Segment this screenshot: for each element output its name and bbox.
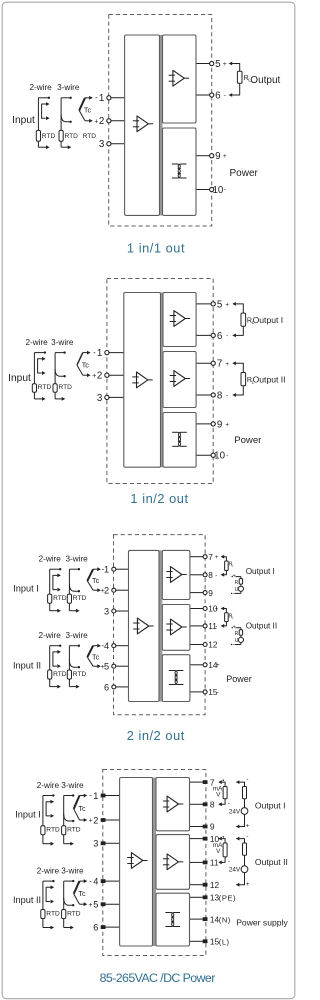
- svg-text:Tc: Tc: [84, 106, 92, 115]
- svg-text:2-wire: 2-wire: [29, 83, 52, 92]
- svg-text:Tc: Tc: [78, 889, 86, 898]
- svg-text:1 in/2 out: 1 in/2 out: [130, 491, 188, 506]
- svg-text:7: 7: [208, 552, 213, 562]
- svg-text:RTD: RTD: [42, 133, 56, 140]
- svg-text:Tc: Tc: [92, 576, 100, 585]
- svg-text:RTD: RTD: [65, 133, 79, 140]
- svg-text:-: -: [93, 348, 96, 357]
- svg-text:+: +: [233, 574, 236, 580]
- svg-text:RTD: RTD: [83, 133, 97, 140]
- svg-text:-: -: [215, 572, 217, 579]
- svg-text:85-265VAC /DC Power: 85-265VAC /DC Power: [100, 971, 216, 985]
- svg-text:6: 6: [215, 90, 221, 101]
- svg-text:RTD: RTD: [67, 827, 81, 834]
- svg-text:2-wire: 2-wire: [37, 781, 60, 790]
- svg-text:(N): (N): [219, 915, 231, 924]
- svg-text:Input I: Input I: [15, 810, 41, 820]
- svg-text:2-wire: 2-wire: [25, 338, 48, 347]
- svg-text:Input II: Input II: [13, 895, 41, 905]
- svg-text:+: +: [223, 153, 227, 160]
- svg-text:R: R: [235, 631, 239, 637]
- svg-text:-: -: [215, 623, 217, 630]
- svg-text:6: 6: [104, 682, 109, 692]
- svg-text:+: +: [233, 625, 236, 631]
- svg-text:1: 1: [99, 93, 104, 104]
- svg-text:8: 8: [210, 800, 215, 810]
- svg-text:-: -: [228, 858, 230, 865]
- svg-text:Tc: Tc: [78, 804, 86, 813]
- svg-text:V: V: [216, 848, 221, 855]
- svg-text:3-wire: 3-wire: [65, 631, 88, 640]
- svg-text:RTD: RTD: [73, 671, 87, 678]
- svg-text:2: 2: [93, 815, 98, 825]
- svg-text:Tc: Tc: [82, 360, 90, 369]
- svg-text:+: +: [215, 554, 219, 561]
- svg-text:2-wire: 2-wire: [37, 867, 60, 876]
- svg-text:Output I: Output I: [255, 800, 286, 810]
- svg-text:+: +: [216, 662, 220, 669]
- svg-text:Input II: Input II: [13, 661, 41, 671]
- svg-text:8: 8: [217, 390, 223, 401]
- svg-text:RTD: RTD: [53, 595, 67, 602]
- svg-text:9: 9: [217, 419, 222, 430]
- svg-text:RTD: RTD: [53, 671, 67, 678]
- svg-text:Power: Power: [230, 168, 259, 179]
- svg-text:V: V: [216, 792, 221, 799]
- svg-text:4: 4: [93, 877, 98, 887]
- svg-text:3: 3: [97, 393, 103, 404]
- svg-text:Input: Input: [12, 115, 35, 126]
- svg-text:Input: Input: [8, 373, 31, 384]
- svg-text:24V: 24V: [229, 867, 241, 874]
- svg-text:5: 5: [217, 299, 223, 310]
- svg-text:(PE): (PE): [219, 894, 236, 903]
- svg-text:3-wire: 3-wire: [65, 555, 88, 564]
- svg-text:1: 1: [97, 348, 102, 359]
- svg-text:9: 9: [210, 822, 215, 832]
- svg-text:RTD: RTD: [67, 910, 81, 917]
- svg-text:U: U: [235, 587, 239, 593]
- svg-text:11: 11: [210, 858, 219, 868]
- svg-text:3: 3: [99, 139, 105, 150]
- svg-text:4: 4: [104, 641, 109, 651]
- svg-text:Output: Output: [250, 75, 280, 86]
- svg-text:9: 9: [208, 588, 213, 598]
- svg-text:-: -: [228, 800, 230, 807]
- svg-text:+: +: [94, 118, 98, 125]
- svg-text:-: -: [89, 791, 92, 800]
- svg-text:Output II: Output II: [253, 374, 286, 384]
- svg-text:-: -: [224, 187, 226, 194]
- svg-text:Input I: Input I: [13, 584, 39, 594]
- svg-text:3-wire: 3-wire: [61, 867, 84, 876]
- svg-text:+: +: [92, 373, 96, 380]
- svg-text:RTD: RTD: [46, 827, 60, 834]
- svg-text:2-wire: 2-wire: [39, 555, 62, 564]
- svg-text:+: +: [225, 421, 229, 428]
- svg-text:RTD: RTD: [59, 384, 73, 391]
- svg-text:-: -: [246, 777, 248, 784]
- svg-text:-: -: [224, 92, 226, 99]
- svg-text:9: 9: [215, 151, 220, 162]
- svg-text:Output II: Output II: [255, 857, 288, 867]
- svg-text:Output I: Output I: [253, 315, 284, 325]
- svg-text:12: 12: [210, 880, 220, 890]
- svg-text:2 in/2 out: 2 in/2 out: [127, 728, 185, 743]
- svg-text:Output II: Output II: [246, 621, 277, 630]
- svg-text:+: +: [246, 823, 250, 830]
- svg-text:+: +: [223, 61, 227, 68]
- svg-text:+: +: [88, 818, 92, 825]
- svg-text:-: -: [217, 689, 219, 696]
- svg-text:Power supply: Power supply: [236, 918, 288, 928]
- svg-text:1: 1: [93, 791, 98, 801]
- svg-text:12: 12: [208, 640, 218, 650]
- svg-text:-: -: [233, 591, 235, 597]
- svg-text:-: -: [89, 876, 92, 885]
- svg-text:1 in/1 out: 1 in/1 out: [127, 241, 185, 256]
- svg-text:3-wire: 3-wire: [57, 83, 80, 92]
- svg-text:-: -: [246, 833, 248, 840]
- svg-text:Output I: Output I: [246, 567, 275, 576]
- svg-text:3: 3: [104, 606, 109, 616]
- svg-text:6: 6: [93, 923, 98, 933]
- svg-text:2-wire: 2-wire: [39, 631, 62, 640]
- svg-text:6: 6: [217, 331, 223, 342]
- svg-text:(L): (L): [219, 938, 230, 947]
- svg-text:5: 5: [215, 59, 221, 70]
- svg-text:10: 10: [214, 451, 225, 462]
- svg-text:-: -: [226, 333, 228, 340]
- svg-text:+: +: [88, 902, 92, 909]
- svg-text:-: -: [226, 392, 228, 399]
- svg-text:RTD: RTD: [73, 595, 87, 602]
- svg-text:2: 2: [97, 371, 102, 382]
- svg-text:3-wire: 3-wire: [51, 338, 74, 347]
- svg-text:RTD: RTD: [46, 910, 60, 917]
- svg-text:10: 10: [212, 185, 223, 196]
- svg-text:2: 2: [99, 116, 104, 127]
- svg-text:+: +: [225, 301, 229, 308]
- svg-text:5: 5: [104, 662, 109, 672]
- svg-text:3: 3: [93, 839, 98, 849]
- svg-text:+: +: [215, 606, 219, 613]
- svg-text:5: 5: [93, 900, 98, 910]
- svg-text:R: R: [235, 580, 239, 586]
- svg-text:Power: Power: [226, 674, 252, 684]
- svg-text:+: +: [246, 881, 250, 888]
- svg-text:Tc: Tc: [92, 652, 100, 661]
- svg-text:7: 7: [217, 359, 222, 370]
- svg-text:+: +: [225, 361, 229, 368]
- svg-text:3-wire: 3-wire: [61, 781, 84, 790]
- svg-text:U: U: [235, 638, 239, 644]
- svg-text:-: -: [95, 93, 98, 102]
- svg-text:24V: 24V: [229, 808, 241, 815]
- svg-text:-: -: [226, 452, 228, 459]
- svg-text:Power: Power: [234, 435, 262, 446]
- svg-text:8: 8: [208, 570, 213, 580]
- svg-text:RTD: RTD: [38, 384, 52, 391]
- svg-text:2: 2: [104, 586, 109, 596]
- svg-text:-: -: [233, 642, 235, 648]
- svg-text:1: 1: [104, 565, 109, 575]
